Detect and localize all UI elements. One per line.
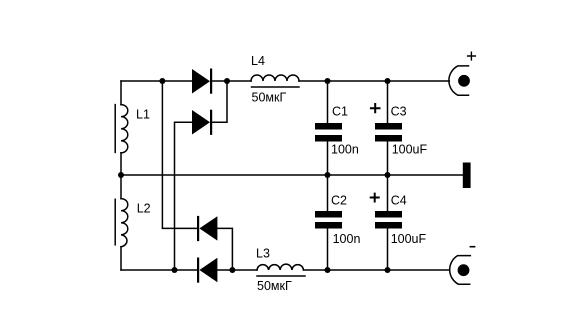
wire left vertical upper (120, 81, 122, 105)
junction dot top rail diode output (224, 78, 230, 84)
diode VD3 cathode bar (197, 216, 199, 241)
wire from D3 down to bottom rail (217, 228, 232, 270)
svg-text:100n: 100n (333, 232, 361, 246)
wire top rail right segment (299, 80, 449, 82)
capacitor C2 plates (315, 211, 342, 229)
polarity plus sign C4 (370, 193, 380, 203)
junction dot bottom rail diode output (229, 267, 235, 273)
svg-text:50мкГ: 50мкГ (252, 91, 287, 105)
inductor L4 underline (252, 86, 300, 88)
wire C4 leads (387, 175, 389, 270)
diode VD4 cathode bar (197, 258, 199, 283)
junction dot bottom rail C2 (325, 267, 331, 273)
diode VD1 cathode bar (210, 69, 212, 94)
svg-text:L4: L4 (251, 54, 265, 68)
inductor L3 (257, 264, 304, 270)
diode VD4 triangle (199, 258, 217, 282)
svg-text:100uF: 100uF (392, 142, 428, 156)
connector XS1 center pin dot (458, 75, 470, 87)
svg-text:L3: L3 (256, 247, 270, 261)
polarity plus sign C3 (370, 103, 381, 113)
wire top rail left segment (121, 80, 192, 82)
svg-text:L1: L1 (136, 108, 150, 122)
diode VD3 triangle (199, 216, 217, 240)
capacitor C4 plates (375, 211, 402, 229)
inductor L3 underline (257, 275, 305, 277)
svg-text:C4: C4 (391, 193, 407, 207)
svg-text:100n: 100n (331, 142, 359, 156)
inductor L2 (121, 199, 128, 247)
wire top rail middle segment (212, 80, 252, 82)
wire from D2 anode down to bottom rail (175, 122, 193, 270)
inductor L2 core line (114, 199, 116, 245)
mid rail terminal bar (463, 163, 471, 189)
wire left vertical middle (120, 153, 122, 199)
junction dot mid rail C3-C4 (385, 172, 391, 178)
diode VD2 cathode bar (210, 110, 212, 135)
wire bottom rail right segment (304, 269, 449, 271)
diode VD1 triangle (192, 69, 210, 94)
capacitor C3 plates (375, 123, 402, 142)
junction dot bottom rail C4 (385, 267, 391, 273)
junction dot mid rail left (118, 172, 124, 178)
junction dot top rail C1 (325, 78, 331, 84)
wire C3 leads (387, 81, 389, 175)
polarity plus sign XS1 terminal (467, 52, 476, 61)
junction dot mid rail C1-C2 (325, 172, 331, 178)
wire left vertical lower (120, 247, 122, 270)
diode VD2 triangle (192, 110, 210, 135)
connector XS1 plus terminal (449, 66, 469, 95)
wire C2 leads (327, 175, 329, 270)
inductor L1 (121, 105, 128, 153)
svg-text:C3: C3 (391, 104, 407, 118)
wire bottom rail left segment (121, 269, 197, 271)
polarity minus sign XS2 terminal (470, 246, 476, 248)
svg-text:50мкГ: 50мкГ (257, 279, 292, 293)
wire mid rail (121, 174, 463, 176)
connector XS2 minus terminal (450, 256, 471, 285)
capacitor C1 plates (315, 123, 342, 142)
wire C1 leads (327, 81, 329, 175)
svg-text:C2: C2 (331, 193, 347, 207)
wire vertical from top rail to D3 row (162, 81, 196, 228)
inductor L4 (251, 75, 299, 81)
wire bottom rail middle segment (217, 269, 257, 271)
junction dot bottom rail left (172, 267, 178, 273)
svg-text:L2: L2 (137, 202, 151, 216)
junction dot top rail C3 (385, 78, 391, 84)
inductor L1 core line (114, 105, 116, 153)
connector XS2 center pin dot (458, 264, 470, 276)
svg-text:100uF: 100uF (391, 232, 427, 246)
wire from D2 cathode up to top rail (212, 81, 228, 122)
svg-text:C1: C1 (332, 104, 348, 118)
junction dot top rail left (159, 78, 165, 84)
